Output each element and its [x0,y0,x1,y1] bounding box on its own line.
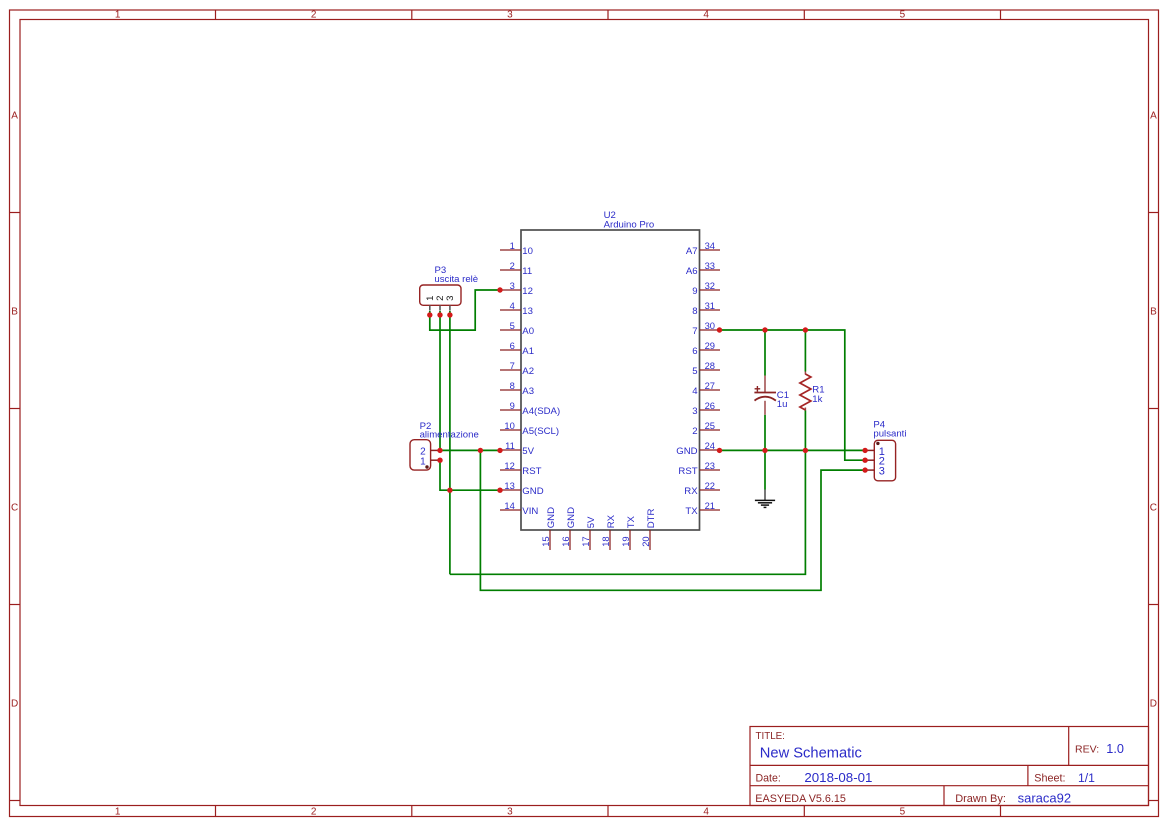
U2 right pins 21-34 with pin numbers and names [676,240,720,517]
svg-text:1k: 1k [812,394,822,405]
svg-text:VIN: VIN [522,506,538,517]
svg-text:20: 20 [640,536,651,546]
svg-text:34: 34 [705,240,715,251]
svg-text:Sheet:: Sheet: [1034,773,1065,785]
svg-text:6: 6 [692,346,697,357]
svg-text:13: 13 [504,480,514,491]
wire GND: P2 pin1 to U2 pin13 [440,460,500,490]
P2 labels [420,421,479,440]
svg-text:1: 1 [115,807,121,818]
svg-text:3: 3 [507,10,513,21]
svg-text:1u: 1u [777,399,788,410]
svg-text:10: 10 [522,246,533,257]
svg-text:1: 1 [510,240,515,251]
svg-text:D: D [11,699,18,710]
svg-text:5: 5 [510,320,515,331]
P2 pin1 marker dot [425,465,428,468]
svg-text:18: 18 [600,536,611,546]
svg-text:9: 9 [692,286,697,297]
wire net 7: U2 pin30 to P4 pin2 [720,330,866,460]
svg-text:30: 30 [705,320,715,331]
svg-text:GND: GND [546,507,557,528]
wire net 12: P3 pin1 to U2 pin3 [430,290,500,330]
P4 pin1 marker dot [876,442,879,445]
ground symbol [755,490,775,508]
resistor R1 [800,372,811,411]
svg-text:29: 29 [705,340,715,351]
svg-text:C: C [11,503,18,514]
svg-text:uscita relè: uscita relè [434,274,478,285]
svg-text:12: 12 [522,286,533,297]
svg-text:12: 12 [504,460,514,471]
svg-text:D: D [1150,699,1157,710]
wire P3 pin2 drop to 5V rail [439,311,441,450]
wire R1 top lead from net 7 [804,330,806,372]
svg-text:32: 32 [705,280,715,291]
wire GND: U2 pin24 to P4 pin1 [720,449,866,451]
svg-text:TX: TX [626,515,637,528]
svg-text:New Schematic: New Schematic [760,745,862,761]
P4 labels [873,420,906,440]
connector P3 uscita rele (header 1x3) [420,285,461,311]
svg-text:3: 3 [879,466,885,478]
C1 value labels [777,390,789,410]
svg-text:1.0: 1.0 [1106,742,1124,756]
svg-text:3: 3 [692,406,697,417]
svg-text:33: 33 [705,260,715,271]
svg-text:3: 3 [507,807,513,818]
svg-text:22: 22 [705,480,715,491]
wire C1 bottom lead to GND rail [764,415,766,451]
svg-text:A6: A6 [686,266,698,277]
op-amp U2 body (Arduino Pro IC rectangle) [521,230,700,530]
svg-text:pulsanti: pulsanti [873,429,906,440]
svg-text:EASYEDA V5.6.15: EASYEDA V5.6.15 [755,793,846,805]
wire C1 top lead from net 7 [764,330,766,376]
svg-text:5V: 5V [586,516,597,528]
connector P4 pulsanti (header 1x3) [865,440,896,481]
wire GND rail drop to ground symbol [764,450,766,489]
connector P2 alimentazione (header 1x2) [410,440,440,470]
svg-text:REV:: REV: [1075,744,1099,756]
svg-text:A: A [1150,111,1157,122]
svg-text:Date:: Date: [756,772,781,784]
svg-text:B: B [1150,307,1157,318]
U2 bottom pins 15-20 with pin numbers and names [540,507,657,550]
svg-text:3: 3 [510,280,515,291]
P3 labels [434,265,478,285]
svg-text:6: 6 [510,340,515,351]
svg-text:A0: A0 [522,326,534,337]
svg-text:25: 25 [705,420,715,431]
svg-text:A3: A3 [522,386,534,397]
svg-text:alimentazione: alimentazione [420,429,479,440]
svg-text:4: 4 [510,300,515,311]
svg-text:Arduino Pro: Arduino Pro [604,220,655,231]
svg-text:3: 3 [445,296,456,301]
R1 value labels [812,384,824,404]
svg-text:2: 2 [692,426,697,437]
svg-text:8: 8 [692,306,697,317]
svg-text:2018-08-01: 2018-08-01 [804,770,872,785]
svg-text:19: 19 [620,536,631,546]
svg-text:1: 1 [115,10,121,21]
svg-text:A1: A1 [522,346,534,357]
svg-text:23: 23 [705,460,715,471]
title block [750,727,1149,806]
svg-text:DTR: DTR [646,509,657,529]
wire R1 bottom lead to GND rail [804,411,806,451]
svg-text:4: 4 [703,807,709,818]
svg-text:RST: RST [522,466,541,477]
svg-text:21: 21 [705,500,715,511]
svg-text:5: 5 [692,366,697,377]
capacitor C1 (polarized) [754,376,776,415]
wire 5V bottom run to P4 pin3 [480,450,865,590]
svg-text:A7: A7 [686,246,698,257]
svg-text:27: 27 [705,380,715,391]
U2 reference designator and value labels [604,210,655,231]
junction dots [427,287,868,493]
svg-text:24: 24 [705,440,715,451]
svg-text:11: 11 [505,440,515,451]
svg-text:1/1: 1/1 [1078,771,1095,785]
svg-text:4: 4 [703,10,709,21]
svg-text:TITLE:: TITLE: [756,731,785,742]
svg-text:GND: GND [676,446,697,457]
svg-text:TX: TX [685,506,698,517]
svg-text:26: 26 [705,400,715,411]
wire P3 pin3 drop (GND) [449,311,451,574]
svg-text:RX: RX [606,514,617,528]
svg-text:28: 28 [705,360,715,371]
svg-text:A2: A2 [522,366,534,377]
svg-text:9: 9 [510,400,515,411]
svg-text:16: 16 [560,536,571,546]
svg-text:RST: RST [678,466,697,477]
svg-text:GND: GND [566,507,577,528]
wire 5V: P2 pin2 to U2 pin11 [440,449,500,451]
U2 left pins 1-14 with pin numbers and names [500,240,560,517]
svg-text:17: 17 [580,536,591,546]
svg-text:1: 1 [420,456,426,467]
svg-text:GND: GND [522,486,543,497]
svg-text:10: 10 [504,420,514,431]
svg-text:31: 31 [705,300,715,311]
svg-text:Drawn By:: Drawn By: [955,793,1006,805]
svg-text:2: 2 [510,260,515,271]
svg-text:8: 8 [510,380,515,391]
svg-text:B: B [11,307,18,318]
svg-text:13: 13 [522,306,533,317]
svg-text:5: 5 [900,10,906,21]
svg-text:2: 2 [311,10,317,21]
svg-text:4: 4 [692,386,698,397]
svg-text:A4(SDA): A4(SDA) [522,406,560,417]
svg-text:A: A [11,111,18,122]
wire GND bottom run to right rail [450,450,806,574]
svg-text:11: 11 [522,266,532,277]
svg-text:7: 7 [692,326,697,337]
svg-text:14: 14 [504,500,514,511]
svg-text:5V: 5V [522,446,534,457]
svg-text:saraca92: saraca92 [1018,790,1071,805]
svg-text:15: 15 [540,536,551,546]
svg-text:C: C [1150,503,1157,514]
svg-text:5: 5 [900,807,906,818]
svg-text:A5(SCL): A5(SCL) [522,426,559,437]
svg-text:RX: RX [684,486,698,497]
svg-text:2: 2 [311,807,317,818]
svg-text:7: 7 [510,360,515,371]
